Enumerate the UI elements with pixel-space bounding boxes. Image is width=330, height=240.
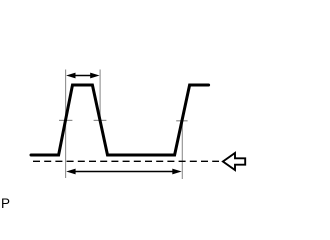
guide line pulse2 rising vertical — [181, 117, 183, 179]
bottom dimension arrow shaft — [71, 171, 177, 173]
tick on rising edge 2 — [176, 120, 187, 122]
tick on falling edge 1 — [94, 119, 107, 121]
bottom dimension arrowhead right — [172, 169, 181, 175]
top dimension arrowhead left — [66, 73, 75, 79]
guide line left vertical — [65, 70, 67, 179]
top dimension arrowhead right — [90, 73, 99, 79]
hollow pointer arrow — [223, 153, 245, 170]
top dimension arrow shaft — [71, 75, 95, 77]
bottom dimension arrowhead left — [66, 169, 75, 175]
guide line pulse1 falling vertical — [99, 70, 101, 123]
tick on rising edge 1 — [59, 119, 72, 121]
dashed baseline — [33, 160, 219, 162]
label P — [1, 196, 10, 211]
waveform pulse signal — [31, 85, 209, 155]
